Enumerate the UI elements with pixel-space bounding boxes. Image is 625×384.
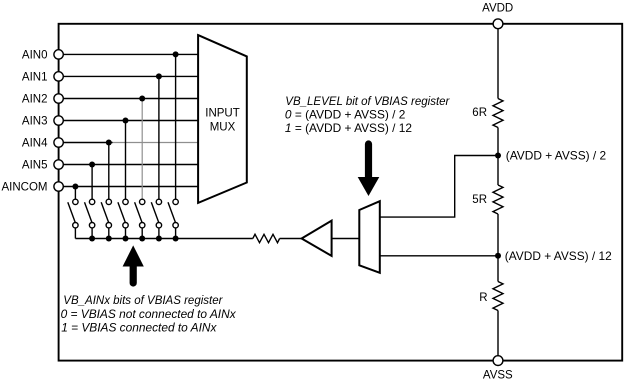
chip boundary [59, 24, 623, 361]
tap wire AIN0 [175, 54, 177, 199]
wire AIN0 [59, 53, 199, 55]
tap wire AIN5 [91, 165, 93, 200]
switch S3 (AIN4) [101, 199, 111, 238]
junction AIN1 [156, 73, 162, 79]
terminal AIN5 [54, 160, 63, 169]
tap wire AINCOM [74, 187, 76, 200]
junction bus S2 [89, 236, 95, 242]
svg-text:AIN0: AIN0 [22, 49, 48, 61]
wire 5R to node B [497, 214, 499, 256]
svg-text:AVSS: AVSS [483, 370, 513, 382]
terminal AIN0 [54, 50, 63, 59]
junction AIN5 [89, 162, 95, 168]
svg-text:5R: 5R [472, 194, 487, 206]
switch S7 (AIN0) [168, 199, 178, 238]
junction bus S5 [139, 236, 145, 242]
tap wire AIN4 [108, 143, 110, 200]
junction bus S3 [106, 236, 112, 242]
switch S4 (AIN3) [118, 199, 128, 238]
svg-text:VB_AINx bits of VBIAS register: VB_AINx bits of VBIAS register [63, 295, 223, 307]
svg-text:AINCOM: AINCOM [2, 182, 48, 194]
svg-text:(AVDD + AVSS) / 2: (AVDD + AVSS) / 2 [506, 149, 607, 163]
wire AIN4 [59, 142, 113, 144]
buffer U2 [302, 221, 332, 256]
wire mux input 1 [380, 156, 498, 218]
resistor 6R [493, 99, 503, 128]
wire 6R to node A [497, 128, 499, 156]
terminal AIN2 [54, 94, 63, 103]
svg-text:AVDD: AVDD [482, 3, 513, 15]
AVDD power terminal [493, 19, 503, 29]
svg-text:R: R [479, 292, 487, 304]
AVSS power terminal [493, 356, 503, 366]
svg-text:VB_LEVEL bit of VBIAS register: VB_LEVEL bit of VBIAS register [285, 96, 450, 108]
svg-text:AIN3: AIN3 [22, 116, 48, 128]
node B junction [495, 253, 501, 259]
junction AIN0 [173, 51, 179, 57]
wire buffer to mux [332, 238, 360, 240]
wire AVDD to 6R [497, 24, 499, 99]
input mux U1 [198, 35, 247, 203]
svg-text:1 = (AVDD + AVSS) / 12: 1 = (AVDD + AVSS) / 12 [285, 121, 413, 135]
junction bus S4 [123, 236, 129, 242]
svg-text:AIN2: AIN2 [22, 94, 48, 106]
switch S2 (AIN5) [85, 199, 95, 238]
junction AIN4 [106, 140, 112, 146]
mux U3 [359, 201, 380, 273]
svg-text:6R: 6R [472, 107, 487, 119]
tap wire AIN3 [125, 121, 127, 200]
terminal AIN1 [54, 72, 63, 81]
svg-text:0 = VBIAS not connected to AIN: 0 = VBIAS not connected to AINx [61, 307, 237, 321]
svg-text:1 = VBIAS connected to AINx: 1 = VBIAS connected to AINx [61, 321, 217, 335]
wire mux input 2 [380, 255, 498, 257]
VB_LEVEL select arrow [358, 144, 380, 196]
svg-text:0 = (AVDD + AVSS) / 2: 0 = (AVDD + AVSS) / 2 [285, 107, 406, 121]
wire AIN2 [59, 98, 199, 100]
junction AIN3 [123, 118, 129, 124]
tap wire AIN1 [158, 76, 160, 199]
junction bus S7 [173, 236, 179, 242]
wire AIN1 [59, 75, 199, 77]
wire node A to 5R [497, 156, 499, 186]
svg-text:AIN5: AIN5 [22, 160, 48, 172]
resistor RB [253, 234, 280, 242]
svg-text:INPUT: INPUT [205, 107, 240, 119]
switch S6 (AIN1) [151, 199, 161, 238]
terminal AINCOM [54, 182, 63, 191]
terminal AIN3 [54, 116, 63, 125]
switch S1 (AINCOM) [68, 199, 78, 238]
junction AIN2 [139, 96, 145, 102]
wire node B to R [497, 256, 499, 282]
svg-text:MUX: MUX [210, 121, 236, 133]
wire VBIAS bus [75, 238, 252, 240]
svg-text:AIN1: AIN1 [22, 71, 48, 83]
wire R to AVSS [497, 311, 499, 361]
svg-text:AIN4: AIN4 [22, 138, 48, 150]
switch S5 (AIN2) [135, 199, 145, 238]
junction AINCOM [72, 184, 78, 190]
wire RB to buffer [280, 238, 302, 240]
wire AINCOM [59, 186, 199, 188]
wire AIN4 gray segment [113, 142, 199, 144]
wire AIN3 [59, 120, 199, 122]
tap wire AIN2 (gray) [141, 99, 143, 200]
svg-text:(AVDD + AVSS) / 12: (AVDD + AVSS) / 12 [505, 249, 612, 263]
wire AIN5 [59, 164, 199, 166]
resistor 5R [493, 185, 503, 214]
node A junction [495, 153, 501, 159]
resistor R [493, 282, 503, 311]
VB_AINx select arrow [123, 245, 144, 283]
junction bus S6 [156, 236, 162, 242]
terminal AIN4 [54, 138, 63, 147]
